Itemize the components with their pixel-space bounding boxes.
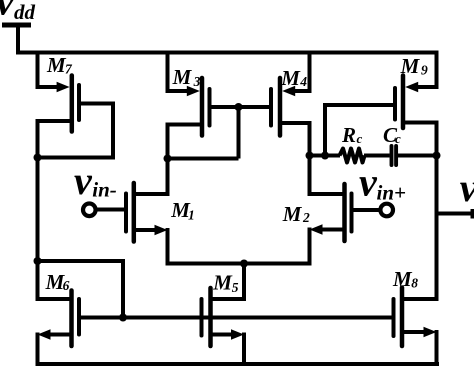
svg-text:v: v — [74, 158, 93, 203]
svg-text:5: 5 — [232, 280, 239, 295]
svg-text:c: c — [395, 131, 401, 146]
svg-text:4: 4 — [299, 74, 307, 89]
svg-text:R: R — [341, 123, 356, 147]
svg-text:2: 2 — [302, 210, 310, 225]
svg-text:in-: in- — [92, 178, 117, 202]
svg-text:M: M — [46, 53, 67, 77]
svg-text:9: 9 — [421, 62, 428, 77]
svg-text:v: v — [359, 160, 378, 205]
svg-text:M: M — [212, 270, 233, 294]
svg-text:v: v — [0, 0, 15, 23]
svg-text:in+: in+ — [377, 181, 407, 205]
svg-text:1: 1 — [188, 207, 195, 222]
svg-text:8: 8 — [411, 275, 418, 290]
svg-text:v: v — [460, 165, 474, 210]
svg-text:M: M — [400, 54, 421, 78]
svg-text:M: M — [172, 65, 193, 89]
svg-text:M: M — [280, 66, 301, 90]
svg-text:6: 6 — [63, 278, 70, 293]
svg-text:M: M — [392, 267, 413, 291]
svg-text:3: 3 — [193, 74, 201, 89]
svg-text:c: c — [357, 131, 363, 146]
svg-text:M: M — [282, 202, 303, 226]
svg-text:dd: dd — [14, 0, 36, 24]
